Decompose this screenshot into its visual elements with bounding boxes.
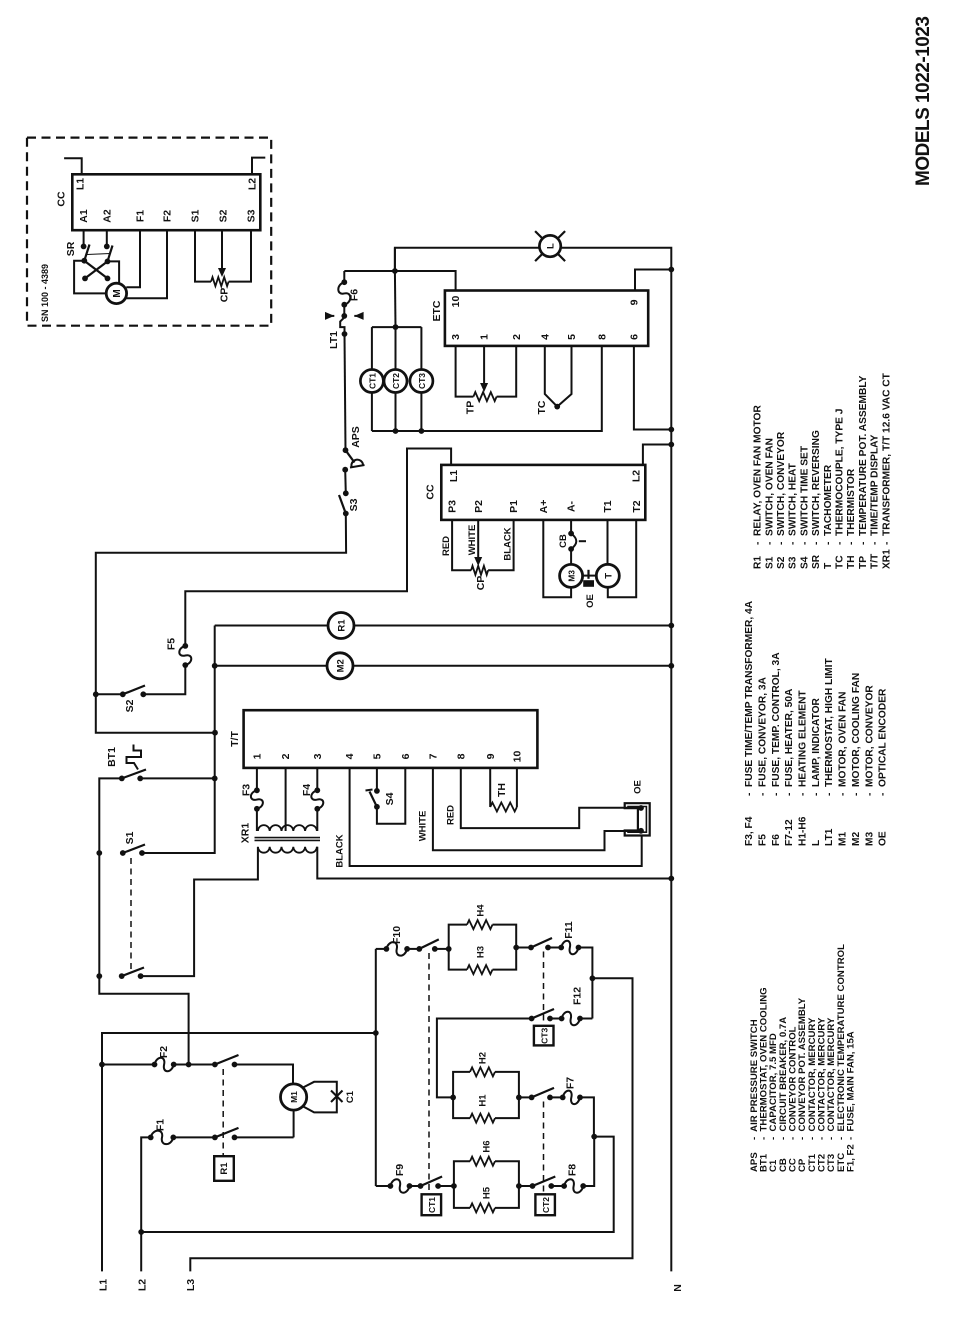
svg-text:SN 100 - 4389: SN 100 - 4389 [40,264,50,322]
svg-text:TC: TC [536,400,548,414]
svg-text:- THERMISTOR: - THERMISTOR [846,468,857,545]
svg-text:- SWITCH, CONVEYOR: - SWITCH, CONVEYOR [776,431,787,545]
contactor CT3 box [534,1026,554,1046]
svg-text:L1: L1 [75,178,87,190]
svg-text:8: 8 [455,753,467,759]
svg-text:A1: A1 [78,209,90,223]
wire CC P3 (RED) to CP [452,520,471,570]
wire ETC pin 10 feed [344,271,455,291]
svg-text:ETC: ETC [431,300,443,321]
electronic temperature control ETC box [445,291,648,346]
svg-text:XR1: XR1 [240,823,252,844]
svg-text:P3: P3 [447,500,459,513]
svg-text:F5: F5 [166,638,178,650]
mechanical link CT2 [543,1102,545,1195]
svg-text:L2: L2 [137,1279,149,1291]
svg-text:XR1: XR1 [881,549,892,569]
wire ETC pin 3 to TP [456,346,474,397]
svg-text:SR: SR [65,241,77,256]
wire S1 right to bus [142,852,215,854]
svg-text:7: 7 [428,753,440,759]
wire APS to S3 [344,470,347,494]
svg-text:CB: CB [558,534,569,548]
wire CC P1 (BLACK) to CP [488,520,513,570]
svg-text:H2: H2 [478,1052,489,1064]
svg-text:5: 5 [566,334,578,340]
svg-text:F1, F2: F1, F2 [845,1144,856,1172]
svg-text:9: 9 [485,753,497,759]
svg-text:A-: A- [566,500,578,512]
fuse F7 [560,1095,566,1101]
svg-text:APS: APS [350,426,362,448]
svg-text:P1: P1 [508,500,520,513]
svg-text:F6: F6 [771,834,782,846]
wire lamp feed [395,248,671,1272]
wire SR right bracket to motor [108,261,120,284]
wire CT bottom bus to ETC pin 8 [372,346,602,431]
wire CC A+ to M3 [543,520,571,597]
svg-text:R1: R1 [219,1162,230,1175]
mechanical link S1 [130,858,132,971]
svg-text:- THERMOSTAT, HIGH LIMIT: - THERMOSTAT, HIGH LIMIT [824,658,835,796]
air pressure switch APS [346,450,355,462]
svg-text:- TACHOMETER: - TACHOMETER [823,464,834,545]
wire F1 to L2 [141,1137,151,1271]
svg-text:2: 2 [280,753,292,759]
wire L2 feed bus [141,1137,614,1232]
wire heater feed from L1 [375,949,377,1186]
thermocouple TC [545,346,557,407]
svg-text:BLACK: BLACK [503,527,514,560]
svg-text:S4: S4 [799,556,810,569]
svg-text:R1: R1 [337,619,348,632]
svg-text:L: L [811,840,822,846]
wiper arrow S2 (inset) [221,230,223,270]
wire L1 stub (inset) [64,158,82,174]
svg-text:1: 1 [252,753,264,759]
wire to M1 top [235,1065,294,1085]
wire R1 line [215,625,672,627]
contactor CT1 box [422,1194,442,1215]
wire T/T pin 7 WHITE to OE [433,768,641,850]
wire T/T pin 4 BLACK to OE [350,768,642,866]
svg-text:H3: H3 [475,946,486,958]
svg-text:L2: L2 [247,178,259,190]
svg-text:- OPTICAL ENCODER: - OPTICAL ENCODER [878,688,889,796]
wire ETC pin 6 to rail [634,346,671,430]
svg-text:S1: S1 [190,209,202,222]
wire L2 stub (inset) [252,158,265,175]
thermistor TH [489,768,491,807]
contactor CT2 contact (F7) [516,1095,522,1101]
node S2 junction [93,691,99,697]
wire T/T pin 8 RED to OE [461,768,641,828]
mechanical link R1 [222,1069,224,1156]
fuse F11 [558,945,564,951]
svg-text:OE: OE [633,780,644,794]
current transformer CT3 [420,327,422,369]
svg-text:BT1: BT1 [106,747,118,767]
svg-text:P2: P2 [473,500,485,513]
circuit breaker CB [570,520,572,534]
svg-text:M2: M2 [336,659,347,672]
svg-text:3: 3 [312,753,324,759]
optical encoder OE [625,803,650,835]
svg-text:4: 4 [344,753,356,759]
svg-text:F11: F11 [563,921,575,939]
svg-text:F3, F4: F3, F4 [744,816,755,846]
potentiometer CP (inset) [211,277,229,286]
svg-text:SR: SR [811,554,822,569]
svg-text:5: 5 [372,753,384,759]
wire S3 down and left [96,514,346,733]
svg-text:H1: H1 [478,1094,489,1107]
fuse F5 [182,643,188,649]
wire F12 to H1 H2 block [437,1019,532,1098]
svg-text:BLACK: BLACK [334,834,345,867]
svg-text:F1: F1 [155,1119,167,1131]
svg-text:- TEMPERATURE POT. ASSEMBLY: - TEMPERATURE POT. ASSEMBLY [858,375,869,545]
wire L3 feed bus [190,978,632,1271]
mechanical link CT1 [428,953,430,1194]
svg-text:- MOTOR, COOLING FAN: - MOTOR, COOLING FAN [851,673,862,796]
wire CC L1 riser [185,449,451,646]
svg-text:A+: A+ [538,500,550,514]
svg-text:F7-12: F7-12 [784,819,795,846]
svg-text:WHITE: WHITE [467,525,478,556]
fuse F2 [152,1062,158,1068]
svg-text:L: L [546,243,557,249]
fuse F9 [376,1185,391,1187]
conveyor pot CP [471,566,488,575]
svg-text:T2: T2 [631,500,643,512]
svg-text:S3: S3 [246,209,258,222]
fuse F1 [148,1135,154,1141]
thermostat BT1 [127,745,142,770]
capacitor C1 [303,1082,337,1113]
svg-text:- SWITCH TIME SET: - SWITCH TIME SET [799,445,810,545]
svg-text:TC: TC [835,555,846,569]
svg-text:TH: TH [846,555,857,569]
svg-text:- RELAY, OVEN FAN MOTOR: - RELAY, OVEN FAN MOTOR [753,405,764,545]
svg-text:M2: M2 [851,832,862,846]
wire F7 to L2 node [580,1097,594,1136]
svg-text:CT2: CT2 [391,373,401,389]
svg-text:T/T: T/T [229,731,241,747]
transformer XR1 [256,809,258,831]
svg-text:F2: F2 [158,1046,170,1058]
svg-text:R1: R1 [753,556,764,569]
svg-text:RED: RED [446,805,457,825]
svg-text:M1: M1 [289,1091,299,1103]
svg-text:S1: S1 [764,556,775,569]
svg-text:- MOTOR, CONVEYOR: - MOTOR, CONVEYOR [864,685,875,796]
svg-text:CT1: CT1 [368,373,378,389]
svg-text:S3: S3 [348,498,360,511]
contactor R1 contact (F2 line) [174,1064,215,1066]
wire CC T2 to T [608,520,636,597]
motor M1 [281,1084,307,1110]
indicator lamp L [539,235,560,256]
svg-text:- TIME/TEMP DISPLAY: - TIME/TEMP DISPLAY [870,434,881,545]
svg-text:N: N [672,1284,684,1292]
svg-text:S2: S2 [124,699,136,712]
fuse F6 [343,271,345,282]
current transformer CT2 [395,327,397,369]
wire ETC pin 2 to TP [497,346,517,397]
svg-text:F3: F3 [241,784,253,796]
svg-text:L2: L2 [630,470,642,482]
svg-text:H5: H5 [482,1186,493,1199]
svg-text:LT1: LT1 [328,331,340,349]
wire CT top bus [372,326,422,328]
switch S1 [123,845,145,854]
svg-text:- FUSE, HEATER, 50A: - FUSE, HEATER, 50A [784,688,795,796]
wire SR crossover [84,261,107,279]
svg-text:L3: L3 [185,1279,197,1291]
svg-text:- SWITCH, OVEN FAN: - SWITCH, OVEN FAN [764,438,775,545]
svg-text:T1: T1 [602,500,614,512]
wire BT1 left rail [99,778,188,1064]
optical encoder shaft OE [583,575,597,577]
svg-text:F4: F4 [301,784,313,796]
svg-text:- MOTOR, OVEN FAN: - MOTOR, OVEN FAN [838,691,849,796]
wire CC T1 to T [607,520,609,564]
svg-text:6: 6 [629,334,641,340]
contactor CT2 contact (F8) [516,1183,522,1189]
svg-text:- FUSE, CONVEYOR, 3A: - FUSE, CONVEYOR, 3A [758,676,769,796]
contactor R1 contact (F1 line) [212,1135,218,1141]
svg-text:RED: RED [441,536,452,556]
conveyor control CC box [441,465,645,520]
svg-text:- HEATING ELEMENT: - HEATING ELEMENT [798,690,809,796]
wire ETC pin 9 to rail [635,270,671,291]
wire S3 to pot (inset) [229,230,251,281]
svg-text:CC: CC [56,191,68,207]
thermostat LT1 [343,305,345,316]
svg-text:F10: F10 [391,926,403,944]
contactor CT3 contact (F11) [516,947,531,949]
svg-text:MODELS 1022-1023: MODELS 1022-1023 [913,17,934,186]
svg-text:CT3: CT3 [539,1028,549,1044]
svg-text:L1: L1 [98,1279,110,1291]
wire F1 to motor (inset) [126,230,140,287]
wire lamp corner to CT bus [394,248,396,271]
svg-text:M: M [112,289,123,297]
wire rail to L1 feed [102,1033,376,1271]
svg-text:M1: M1 [838,832,849,846]
svg-text:10: 10 [450,296,462,308]
svg-text:F1: F1 [135,210,147,222]
svg-text:- SWITCH, HEAT: - SWITCH, HEAT [788,462,799,545]
motor M3 [560,564,583,587]
dashed enclosure SN 100-4389 [27,138,271,326]
wire S1 to pot CP (inset) [195,230,211,281]
svg-text:6: 6 [400,753,412,759]
svg-text:8: 8 [596,334,608,340]
temperature pot TP [473,392,496,401]
node H5 H6 block entry [451,1183,457,1189]
contactor CT2 box [535,1194,555,1215]
svg-text:L1: L1 [448,470,460,482]
switch S1 lower pole [122,968,144,977]
svg-text:S1: S1 [124,831,136,844]
svg-text:- TRANSFORMER, T/T 12.6 VAC C: - TRANSFORMER, T/T 12.6 VAC CT [881,372,892,545]
svg-text:TP: TP [464,401,476,414]
svg-text:M3: M3 [864,832,875,846]
wiper arrow ETC pin 1 [483,346,485,385]
current transformer CT1 [371,327,373,369]
time/temp display T/T box [244,710,538,768]
svg-text:C1: C1 [345,1090,356,1103]
heater block H1 H2 [453,1072,470,1118]
svg-text:F9: F9 [394,1164,406,1176]
svg-text:M3: M3 [567,570,577,582]
svg-text:F12: F12 [572,987,584,1005]
svg-text:1: 1 [479,334,491,340]
svg-text:H4: H4 [475,904,486,917]
wire CB to M3 [570,549,572,564]
fuse F8 [561,1183,567,1189]
svg-text:F7: F7 [565,1077,577,1089]
wire S1 lower to XR1 secondary [141,847,258,976]
wire F11 to L3 node [579,948,593,1019]
svg-text:F8: F8 [567,1164,579,1176]
wire S4 to T/T pin 6 [377,768,405,824]
wire left control bus [214,626,216,855]
fuse F3 [256,768,258,790]
svg-text:S2: S2 [218,209,230,222]
wire LT1 to APS [345,334,346,450]
wire XR1 secondary right to rail [317,847,671,879]
contactor CT1 contact (F10) [407,948,419,950]
relay coil R1 box [214,1156,234,1181]
wire M1 bottom [293,1110,295,1137]
wire SR left bracket to motor [74,261,106,294]
wire T/T pin 2 center tap [285,768,287,831]
fuse F10 [376,948,387,950]
svg-text:9: 9 [629,299,641,305]
switch S4 [376,768,378,791]
wire F8 to L2 node [583,1137,594,1186]
motor M (inset) [106,283,126,303]
svg-text:A2: A2 [101,209,113,223]
relay R1 [328,613,354,639]
svg-text:- LAMP, INDICATOR: - LAMP, INDICATOR [811,697,822,796]
svg-text:OE: OE [878,831,889,846]
svg-text:CT1: CT1 [427,1197,437,1213]
svg-text:4: 4 [539,334,551,340]
svg-text:T/T: T/T [870,553,881,569]
motor M2 [327,653,353,679]
svg-text:CP: CP [219,288,231,303]
wiper arrow CC P2 (WHITE) [477,520,479,559]
svg-text:S3: S3 [788,556,799,569]
svg-text:TP: TP [858,556,869,569]
svg-text:F6: F6 [349,289,361,301]
conveyor control CC (inset) box [72,174,260,230]
switch S3 [339,495,346,514]
svg-text:WHITE: WHITE [418,811,429,842]
tachometer T [596,564,619,587]
contactor CT3 contact (F12) [529,1016,535,1022]
contactor CT1 contact (F9) [410,1185,421,1187]
node H3 H4 block entry [446,946,452,952]
svg-text:F5: F5 [758,834,769,846]
svg-text:- SWITCH, REVERSING: - SWITCH, REVERSING [811,430,822,545]
wire M2 line [215,665,672,667]
svg-text:H6: H6 [482,1140,493,1152]
wire F2 to motor (inset) [126,230,167,298]
svg-text:S4: S4 [384,792,396,805]
svg-text:- FUSE TIME/TEMP TRANSFORMER,: - FUSE TIME/TEMP TRANSFORMER, 4A [744,600,755,796]
svg-text:CT3: CT3 [417,373,427,389]
heater block H5 H6 [454,1161,470,1208]
fuse F12 [559,1016,565,1022]
svg-text:3: 3 [450,334,462,340]
svg-text:- FUSE, TEMP. CONTROL, 3A: - FUSE, TEMP. CONTROL, 3A [771,652,782,796]
svg-text:2: 2 [511,334,523,340]
svg-text:T: T [603,573,614,579]
wire BT1 right to bus [140,777,215,779]
svg-text:CP: CP [475,576,487,591]
wire F5 to S2 [143,665,185,694]
switch S2 [140,691,146,697]
svg-text:10: 10 [512,751,524,763]
svg-text:LT1: LT1 [824,828,835,846]
svg-text:- FUSE, MAIN FAN, 15A: - FUSE, MAIN FAN, 15A [845,1031,856,1140]
wire CC L2 to rail [643,445,671,465]
heater block H3 H4 [449,925,467,970]
svg-text:T: T [823,562,834,569]
fuse F4 [316,768,318,790]
mechanical link CT3 [543,952,545,1026]
svg-text:CC: CC [425,484,437,500]
svg-text:H1-H6: H1-H6 [798,816,809,846]
svg-text:TH: TH [496,783,508,797]
svg-text:CT2: CT2 [541,1197,551,1213]
svg-text:S2: S2 [776,556,787,569]
svg-text:OE: OE [585,594,596,608]
svg-text:F2: F2 [162,210,174,222]
svg-text:- THERMOCOUPLE, TYPE J: - THERMOCOUPLE, TYPE J [835,409,846,545]
